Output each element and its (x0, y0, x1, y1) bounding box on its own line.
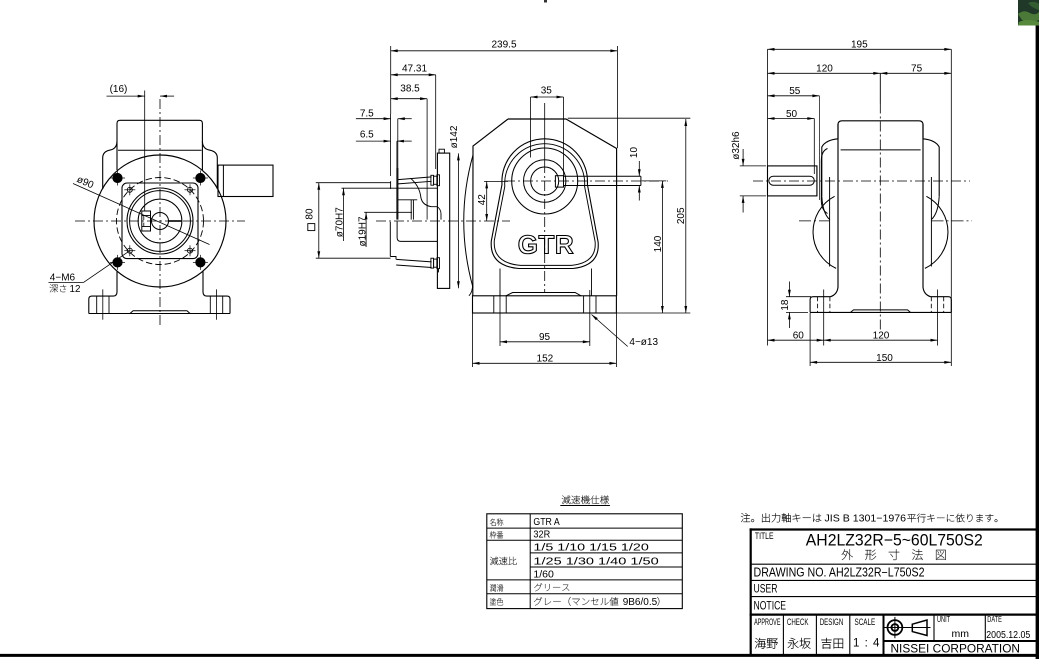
middle view: adapter lower outline (390, 222, 396, 260)
svg-text:32R: 32R (533, 529, 550, 541)
middle view: body outline (473, 119, 617, 296)
left view: flange tap hole 4-M6 bottom-right (185, 245, 196, 256)
spec table: outer border (487, 514, 683, 609)
dimension 75 (880, 64, 951, 75)
right view: left foot hole hidden lines (818, 297, 830, 313)
middle view: housing arc behind flange (464, 155, 473, 288)
spec table label: frame size (490, 531, 503, 538)
middle view: output key section (555, 176, 563, 187)
svg-text:ø142: ø142 (449, 125, 460, 148)
right view: vertical centerline (879, 104, 881, 333)
svg-text:35: 35 (541, 86, 553, 97)
left view: body side left below circle (113, 272, 117, 297)
desktop wallpaper fragment top-right corner (1018, 0, 1039, 26)
left view: left foot hole lines (97, 289, 109, 319)
middle view: hub circle middle (524, 160, 566, 202)
left view: right foot hole lines (210, 289, 222, 319)
svg-text:DRAWING NO. AH2LZ32R−L750S2: DRAWING NO. AH2LZ32R−L750S2 (754, 565, 925, 579)
svg-text:APPROVE: APPROVE (754, 616, 780, 627)
svg-text:7.5: 7.5 (360, 108, 374, 119)
dimension o70H7 spigot (335, 188, 438, 241)
svg-text:AH2LZ32R−5~60L750S2: AH2LZ32R−5~60L750S2 (806, 531, 983, 549)
dimension 10 (629, 147, 641, 201)
left view: motor top housing rect (117, 120, 202, 170)
spec table label: lubrication (490, 584, 503, 591)
svg-text:80: 80 (304, 208, 315, 220)
left view: vertical centerline (159, 99, 161, 327)
left view: bolt circle o90 (dashed) (117, 178, 204, 265)
svg-text:JIS B 1301−1976: JIS B 1301−1976 (825, 514, 907, 525)
svg-text:ø70H7: ø70H7 (335, 207, 346, 237)
dimension o32h6 (731, 131, 766, 213)
svg-text:mm: mm (952, 628, 970, 640)
page bottom frame line (0, 654, 1039, 657)
middle view: hub boss inner contour (494, 144, 595, 266)
title block: checker name Nagasaka (788, 638, 811, 649)
left view: housing bolt top-left (110, 171, 125, 186)
dimension 47.31 (391, 64, 436, 170)
svg-text:9B6/0.5: 9B6/0.5 (623, 597, 658, 608)
dimension 150 (810, 297, 951, 366)
label 4-o13 with leader (592, 315, 659, 348)
middle view: input flange plate (437, 153, 449, 288)
dimension 195 (768, 40, 952, 346)
title block: bottom row column dividers (783, 615, 1037, 656)
middle view: hub boss outer contour (491, 139, 598, 269)
left view: left shoulder (103, 141, 117, 189)
dimension 50 (768, 109, 815, 174)
right view: base bottom edge (810, 311, 951, 313)
svg-text:205: 205 (676, 207, 687, 224)
left view: right shoulder (202, 141, 217, 189)
dimension 120 top (768, 64, 881, 104)
middle view: adapter mounting face lines (391, 168, 398, 220)
svg-text:GTR: GTR (518, 230, 574, 260)
right view: shaft boss edge (821, 149, 827, 214)
dimension 152 (473, 314, 617, 368)
middle view: input centerline (376, 220, 510, 222)
left view: flange tap hole 4-M6 top-right (185, 184, 196, 195)
dimension 205 (568, 118, 691, 313)
left view: base recess (130, 311, 190, 314)
dimension 239.5 (391, 39, 618, 148)
left view: flange tap hole 4-M6 top-left (124, 184, 135, 195)
right view: right foot hole hidden lines (931, 297, 943, 313)
middle view: base plate (473, 296, 617, 313)
left view: pilot ring outer (127, 188, 193, 254)
middle view: base hole lines left (494, 296, 506, 313)
middle view: output shaft circle (531, 167, 559, 195)
svg-text:SCALE: SCALE (855, 617, 876, 627)
right view: right shoulder (923, 139, 939, 197)
left view: gearcase outer circle (94, 155, 226, 287)
svg-text:1/5 1/10 1/15 1/20: 1/5 1/10 1/15 1/20 (533, 542, 649, 554)
svg-text:239.5: 239.5 (491, 39, 516, 50)
middle view: base top bump (506, 293, 581, 296)
dimension 35 (531, 86, 564, 176)
left view: left foot (89, 296, 113, 313)
left view: body side right below circle (203, 272, 207, 297)
svg-text:ø32h6: ø32h6 (731, 131, 742, 160)
label o90 with leader (73, 174, 210, 244)
dimension 120 bottom (824, 290, 938, 346)
right view: base recess (851, 310, 911, 313)
right view: output shaft (768, 166, 817, 196)
left view: terminal box (218, 165, 273, 196)
middle view: adapter bottom bolt (431, 258, 440, 269)
middle view: adapter top bolt (431, 175, 440, 186)
middle view: ribs below boss (499, 269, 501, 296)
svg-text:DESIGN: DESIGN (820, 617, 844, 627)
right view: left shoulder lower curve (822, 196, 830, 219)
right view: output shaft centerline (753, 180, 970, 182)
dimension 95 (500, 290, 590, 346)
middle view: line below adapter (438, 269, 440, 273)
middle view: output shaft centerline (505, 180, 668, 182)
label depth 12 (kanji) (50, 284, 81, 295)
left view: horizontal centerline (75, 220, 245, 222)
svg-text:1/25 1/30 1/40 1/50: 1/25 1/30 1/40 1/50 (533, 555, 659, 567)
title block: approver name Unno (755, 638, 778, 649)
right view: left shoulder (822, 139, 838, 197)
title block: outer and row borders (750, 528, 1038, 655)
svg-text:6.5: 6.5 (360, 130, 374, 141)
dimension square-80 motor flange (304, 183, 390, 259)
middle view: adapter inner lines (398, 200, 441, 220)
page right frame line (1036, 24, 1039, 659)
left view: base bottom edge (89, 313, 230, 315)
spec table value: gray munsell 9B6/0.5 (534, 597, 659, 608)
svg-text:38.5: 38.5 (400, 84, 420, 95)
dimension (16) (107, 84, 175, 211)
right view: shaft keyway slot (769, 176, 815, 185)
spec table label: name (490, 518, 503, 525)
svg-text:NISSEI CORPORATION: NISSEI CORPORATION (891, 641, 1021, 655)
svg-text:USER: USER (754, 583, 778, 595)
dimension o142 (449, 125, 460, 288)
svg-text:4−M6: 4−M6 (50, 273, 76, 284)
right view: body side left (831, 124, 839, 297)
middle view: adapter top ledge (398, 177, 432, 184)
dimension 42 (477, 181, 508, 221)
middle view: adapter bottom ledge (396, 259, 431, 267)
title block: outline dimension drawing (kanji) (842, 549, 946, 560)
svg-text:(16): (16) (110, 84, 128, 95)
dimension 6.5 (356, 130, 412, 168)
right view: left foot (810, 297, 830, 313)
spec table label: paint color (490, 598, 503, 605)
right view: right foot (931, 297, 952, 313)
left view: housing joint line (118, 149, 202, 151)
svg-text:GTR A: GTR A (533, 516, 559, 528)
dimension o19H7 input bore (357, 212, 412, 247)
left view: input keyway (142, 211, 151, 231)
right view: gearcase circle right arc (925, 196, 948, 268)
svg-text:47.31: 47.31 (402, 64, 427, 75)
svg-text:CHECK: CHECK (787, 617, 809, 627)
spec table header (reducer specifications) (562, 495, 609, 504)
svg-text:TITLE: TITLE (755, 531, 774, 541)
dimension 140 (642, 181, 667, 313)
middle view: hub vertical centerline (544, 103, 546, 292)
right view: shaft root face (816, 166, 818, 196)
svg-text:18: 18 (780, 299, 791, 311)
dimension 55 (768, 86, 820, 200)
svg-text:ø19H7: ø19H7 (357, 216, 368, 246)
dimension 18 (780, 282, 811, 329)
spec table label: reduction ratio (490, 557, 517, 565)
right view: gearcase circle left arc (813, 196, 836, 268)
left view: input bore circle (152, 213, 169, 230)
middle view: hub circle large (512, 148, 578, 214)
left view: housing bolt bottom-left (110, 255, 125, 270)
left view: mounting square flange (122, 183, 198, 259)
spec table: row lines (487, 528, 683, 594)
svg-text:NOTICE: NOTICE (754, 600, 787, 612)
svg-text:4−ø13: 4−ø13 (629, 337, 658, 348)
dimension 38.5 (391, 84, 427, 220)
svg-text:1 : 4: 1 : 4 (853, 638, 880, 650)
right view: input centerline ticks (799, 220, 972, 222)
left view: pilot ring inner (130, 191, 191, 252)
spec table value: grease (534, 583, 569, 591)
svg-text:1/60: 1/60 (533, 569, 554, 581)
dimension 7.5 (356, 108, 412, 176)
svg-text:UNIT: UNIT (937, 616, 950, 624)
title block: designer name Yoshida (821, 638, 843, 649)
middle view: adapter bell curve (411, 178, 432, 206)
svg-text:10: 10 (629, 147, 640, 159)
svg-text:DATE: DATE (987, 616, 1002, 624)
left view: flange tap hole 4-M6 bottom-left (124, 245, 135, 256)
note text about output shaft key (JIS B 1301-1976) (741, 513, 997, 524)
svg-text:2005.12.05: 2005.12.05 (986, 630, 1030, 641)
left view: right foot (207, 296, 230, 313)
right view: right shoulder lower curve (931, 196, 939, 219)
left view: housing bolt bottom-right (193, 255, 208, 270)
spec table: column divider (529, 514, 531, 609)
middle view: output key lines to right (564, 175, 641, 177)
right view: housing joint line (841, 149, 921, 151)
middle view: flange top step (439, 149, 444, 153)
middle view: adapter lower step (397, 221, 437, 241)
stray mark top center (544, 0, 547, 3)
title block: third angle projection symbol (884, 617, 930, 638)
right view: top housing rect (838, 121, 923, 139)
svg-text:12: 12 (70, 284, 81, 295)
right view: body side right (923, 124, 931, 297)
dimension 60 (768, 290, 824, 346)
label 4-M6 depth 12 with leader (49, 251, 130, 284)
left view: bore key stub line (169, 220, 182, 222)
middle view: base hole lines right (584, 296, 596, 313)
left view: bearing circle (138, 199, 182, 243)
left view: housing bolt top-right (193, 171, 208, 186)
svg-text:152: 152 (537, 353, 554, 364)
spec table: header underline (560, 505, 610, 507)
middle view: body bottom-left fillet (469, 284, 473, 296)
